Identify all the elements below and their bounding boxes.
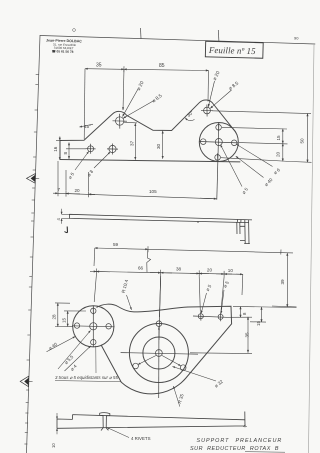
svg-text:15: 15 — [62, 317, 67, 323]
svg-text:10: 10 — [228, 268, 234, 273]
leader ⌀5 flange center — [221, 145, 243, 187]
bar outline — [69, 214, 252, 222]
flange boss circle top view — [199, 123, 238, 162]
label ⌀5 tab left — [205, 283, 213, 292]
flange holes top view — [200, 122, 239, 199]
break slash ext — [147, 250, 151, 273]
bottom edge top view — [60, 160, 240, 162]
label ⌀8 — [86, 169, 94, 178]
big flange bolt circle ⌀55 — [129, 324, 188, 383]
part outline top view — [60, 100, 236, 160]
flange crosshair horizontal — [200, 142, 239, 143]
dim 28 left — [55, 303, 73, 327]
dim 30 — [162, 131, 164, 159]
svg-text:105: 105 — [149, 189, 157, 194]
note leader — [95, 346, 97, 373]
svg-text:35: 35 — [245, 332, 250, 338]
dim 35 / 85 top — [84, 66, 208, 139]
big flange bore ⌀32 — [143, 337, 175, 369]
label ⌀5 — [67, 171, 75, 180]
label ⌀5.5 bottom flange — [63, 354, 74, 365]
bar outline — [57, 412, 245, 429]
leader ⌀4 bottom — [65, 346, 91, 371]
dim 20 right — [282, 144, 284, 162]
label ⌀32 — [214, 379, 225, 389]
dim 8 left — [66, 143, 86, 159]
label 30° — [186, 110, 195, 118]
label ⌀40 bottom — [48, 341, 59, 351]
left lobe hole ⌀8.5 — [113, 114, 128, 129]
ext lines down — [94, 275, 96, 303]
svg-text:20: 20 — [275, 151, 280, 157]
border top — [40, 36, 315, 45]
svg-text:16: 16 — [53, 146, 58, 152]
centerline / dim 59 — [94, 246, 293, 272]
svg-text:59: 59 — [113, 242, 119, 247]
dim 10 left end — [56, 413, 58, 434]
bar inner ticks — [197, 221, 199, 223]
leader ⌀40 bottom — [47, 337, 76, 352]
right lobe hole — [201, 105, 213, 117]
svg-text:39: 39 — [280, 279, 285, 285]
svg-text:30: 30 — [156, 143, 161, 149]
leader ⌀6 flange — [237, 144, 273, 166]
dim 4 thickness — [62, 209, 70, 224]
label ⌀8.5 right lobe — [228, 80, 241, 92]
crosshair — [121, 353, 198, 355]
label R10.4 — [121, 279, 129, 294]
leader 4 RIVETS — [107, 428, 129, 438]
fold mark triangle lower — [20, 376, 32, 386]
svg-text:8: 8 — [63, 152, 68, 155]
svg-text:85: 85 — [159, 63, 165, 69]
radius arrows to 3 holes — [138, 327, 181, 366]
label ⌀5 flange — [241, 186, 249, 195]
address stamp — [46, 39, 83, 55]
svg-text:50: 50 — [300, 138, 305, 144]
leader R10.4 — [127, 295, 132, 310]
leader ⌀5 tab right — [221, 290, 224, 314]
fold mark triangle upper — [27, 174, 40, 184]
leader ⌀20 right — [208, 81, 214, 107]
small hole ticks — [218, 123, 220, 131]
leader ⌀40 flange — [236, 156, 264, 177]
svg-text:20: 20 — [207, 267, 213, 272]
leader ⌀8.5 right — [210, 90, 231, 108]
svg-text:66: 66 — [138, 266, 144, 271]
left flange circle — [73, 306, 114, 347]
dim row 66/38/20/10 — [90, 269, 243, 318]
top border tick circle — [73, 29, 76, 32]
leader ⌀8.5 left — [123, 101, 154, 119]
top border tick right — [217, 30, 220, 41]
Feuille n°15 box — [205, 41, 263, 58]
leader ⌀32 — [173, 367, 217, 382]
label R35 — [177, 393, 185, 404]
right side extensions top view — [212, 111, 312, 163]
label ⌀40 flange — [264, 177, 274, 187]
arrow 45° — [80, 124, 94, 127]
svg-text:7: 7 — [58, 187, 61, 192]
label ⌀6 flange — [273, 167, 282, 175]
rivet — [100, 413, 111, 431]
svg-text:SUPPORT PRELANCEUR: SUPPORT PRELANCEUR — [197, 438, 283, 444]
svg-text:90: 90 — [294, 36, 299, 41]
handwritten check mark — [65, 227, 68, 233]
leader ⌀5.5 bottom — [58, 331, 91, 370]
svg-text:☎ 05 61 56 78: ☎ 05 61 56 78 — [52, 49, 74, 54]
hole ⌀8 top view — [107, 144, 118, 155]
svg-text:20: 20 — [75, 188, 81, 193]
tab holes bottom view — [193, 312, 227, 321]
svg-text:38: 38 — [176, 266, 182, 271]
dim 15 right — [282, 129, 284, 144]
svg-text:35: 35 — [96, 63, 102, 69]
top border tick mid — [140, 28, 143, 39]
leader ⌀5 — [75, 152, 89, 171]
svg-text:15: 15 — [256, 321, 261, 326]
label ⌀20 right lobe — [212, 70, 222, 82]
right side dims bottom view — [190, 306, 297, 353]
svg-text:Feuille nº 15: Feuille nº 15 — [208, 45, 256, 56]
svg-text:10: 10 — [51, 443, 56, 448]
label ⌀5 tab right — [222, 280, 230, 289]
arrow 30° arc — [185, 118, 194, 121]
leader ⌀20 left — [123, 89, 139, 117]
border left — [27, 36, 41, 453]
svg-text:3 trous ⌀ 5 equidistants sur ⌀: 3 trous ⌀ 5 equidistants sur ⌀ 55 — [55, 375, 118, 380]
svg-text:SUR REDUCTEUR ROTAX B: SUR REDUCTEUR ROTAX B — [190, 446, 279, 452]
border right — [309, 45, 315, 453]
svg-text:37: 37 — [129, 140, 134, 146]
hole ⌀5 top view — [86, 144, 96, 154]
dim 16 left — [56, 137, 62, 161]
svg-text:4 RIVETS: 4 RIVETS — [131, 436, 151, 441]
part outline bottom view — [73, 304, 232, 394]
label ⌀4 bottom flange — [69, 363, 78, 372]
dim 15 left — [64, 311, 86, 327]
big flange holes — [121, 276, 198, 398]
flange crosshair vertical / 105 extension — [217, 122, 219, 199]
label ⌀8.5 left lobe — [151, 93, 164, 105]
leader ⌀5 tab left — [201, 293, 206, 313]
bottom dim row: 7 / 20 / 105 — [53, 161, 217, 199]
right bent tab edge view — [237, 220, 250, 244]
dim 39 right — [272, 253, 297, 307]
svg-text:15: 15 — [276, 135, 281, 141]
tick above title — [243, 425, 247, 428]
left border ruler ticks — [24, 75, 38, 445]
leader R35 — [173, 386, 179, 406]
label ⌀20 left lobe — [136, 80, 146, 92]
left flange holes — [72, 306, 115, 348]
dim 50 right — [307, 114, 309, 163]
dim 37 — [124, 122, 137, 160]
svg-text:28: 28 — [52, 314, 57, 320]
leader ⌀8 — [94, 152, 110, 168]
crosshairs — [72, 326, 115, 327]
